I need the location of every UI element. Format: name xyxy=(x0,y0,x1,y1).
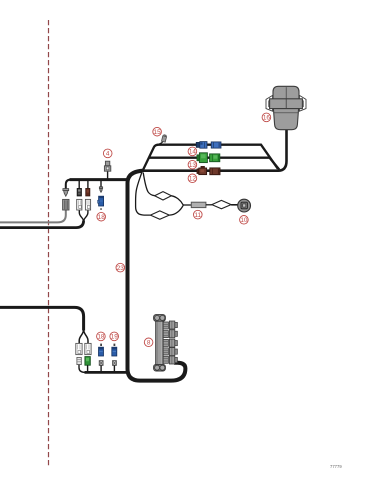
svg-text:13: 13 xyxy=(189,162,197,169)
connector 16 body xyxy=(273,109,298,130)
junction block 8 terminals col2 xyxy=(169,321,177,364)
connector 16 collar xyxy=(270,99,303,109)
svg-text:16: 16 xyxy=(263,115,271,122)
connector item 4 xyxy=(104,161,110,171)
svg-text:10: 10 xyxy=(240,217,248,224)
label 14 xyxy=(188,147,197,156)
connector white lower L xyxy=(76,343,82,354)
connector gray col1 xyxy=(63,199,69,210)
connector pair brown row3 xyxy=(197,166,220,174)
svg-text:15: 15 xyxy=(154,129,162,136)
terminal spade gray col1 xyxy=(63,189,69,197)
wire lower Y split xyxy=(79,330,88,344)
wire drop col4 xyxy=(100,181,102,187)
connector white col2 xyxy=(77,199,82,210)
item 10 sensor xyxy=(238,199,251,212)
svg-text:77779: 77779 xyxy=(330,464,342,469)
label 13 xyxy=(188,160,197,169)
wire row3 brown with vertical to connector 16 xyxy=(143,130,287,171)
pin mark 19 xyxy=(114,344,116,346)
wire lower run xyxy=(85,371,128,374)
connector white lower R xyxy=(85,343,91,354)
connector blue 19 xyxy=(112,347,117,356)
connector 16 right wing xyxy=(299,95,306,111)
wire row1 blue xyxy=(143,145,278,171)
label 16 xyxy=(262,113,271,122)
connector pair blue row1 xyxy=(196,142,221,149)
connector 16 left wing xyxy=(266,95,273,111)
wire item4 lead xyxy=(107,171,109,179)
connector 16 top cap xyxy=(273,86,299,99)
label 18 upper xyxy=(97,212,106,221)
connector blue 18 lower xyxy=(99,347,104,356)
svg-text:18: 18 xyxy=(97,334,105,341)
terminal spade col4 xyxy=(99,187,102,193)
terminal plug 19 xyxy=(113,361,117,366)
label 10 xyxy=(240,216,249,225)
connector blue 18 upper xyxy=(98,196,104,210)
connector 15 xyxy=(161,134,166,142)
label 8 xyxy=(144,338,153,347)
wire drop col1 xyxy=(66,180,71,189)
wire drop col3 xyxy=(87,181,89,189)
connector white col3 xyxy=(85,199,90,210)
item 11 sleeve xyxy=(191,202,206,207)
wire to item 11 xyxy=(183,204,192,206)
label 12 xyxy=(188,174,197,183)
pin mark 18 xyxy=(100,344,102,346)
svg-text:11: 11 xyxy=(194,212,201,219)
wire harness bar upper group xyxy=(70,178,129,181)
wire lower feed xyxy=(0,307,84,330)
connector maroon col3 xyxy=(86,188,90,196)
connector pair green row2 xyxy=(197,153,220,163)
wire row2 green xyxy=(149,158,279,170)
junction block 8 top cap xyxy=(154,315,166,322)
twist symbol D2 xyxy=(150,211,169,219)
wire green to run xyxy=(87,365,89,372)
wire item11 to D3 xyxy=(206,204,212,206)
twist symbol D1 xyxy=(155,192,172,200)
junction block 8 bottom cap xyxy=(154,364,166,371)
svg-text:14: 14 xyxy=(189,149,197,156)
wire converge after D1 xyxy=(171,196,183,205)
svg-text:19: 19 xyxy=(111,334,119,341)
svg-text:18: 18 xyxy=(98,214,106,221)
terminal plug 18 xyxy=(99,361,103,366)
junction block 8 bar xyxy=(156,320,163,367)
wire twisted branch B xyxy=(136,173,151,216)
label 18 lower xyxy=(97,332,106,341)
label 15 xyxy=(153,127,162,136)
junction block 8 terminals col1 xyxy=(163,322,168,363)
wire black left branch xyxy=(0,221,84,228)
label 19 xyxy=(110,332,119,341)
wire twisted branch A xyxy=(143,173,155,196)
svg-text:8: 8 xyxy=(147,340,151,347)
connector green lower xyxy=(85,357,90,366)
terminal plug lower L xyxy=(77,357,81,364)
wire gray left branch xyxy=(0,210,66,222)
datum dashed line xyxy=(48,20,50,467)
svg-text:4: 4 xyxy=(106,151,110,158)
wire 18 to run xyxy=(100,365,102,372)
wire trunk main xyxy=(128,171,186,381)
connector 15 lead xyxy=(158,142,163,145)
wire 19 to run xyxy=(113,365,115,372)
wire Y-split to white connectors xyxy=(79,210,88,222)
label 23 xyxy=(116,263,125,272)
svg-text:12: 12 xyxy=(189,176,197,183)
wire D3 to item 10 xyxy=(231,204,238,206)
wire lower L to run xyxy=(79,365,85,373)
wire converge after D2 xyxy=(169,205,183,215)
label 11 xyxy=(194,210,203,219)
twist symbol D3 xyxy=(212,200,231,208)
connector dark col2 xyxy=(77,188,81,196)
label 4 xyxy=(103,149,112,158)
svg-text:23: 23 xyxy=(117,265,125,272)
wire drop col2 xyxy=(78,181,80,189)
